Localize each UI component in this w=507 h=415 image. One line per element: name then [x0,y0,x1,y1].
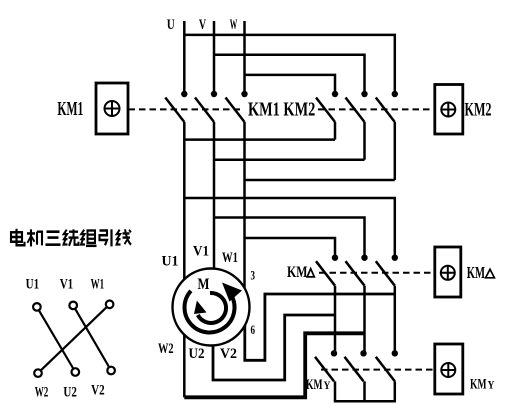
svg-text:U1: U1 [162,253,179,270]
svg-text:KM1 KM2: KM1 KM2 [248,98,315,120]
svg-text:KM: KM [470,376,487,393]
svg-text:W: W [230,15,238,33]
svg-text:V1: V1 [193,243,209,260]
svg-text:6: 6 [251,323,256,337]
svg-text:V2: V2 [220,346,237,363]
svg-text:KM: KM [287,263,307,280]
svg-text:Y: Y [488,379,495,392]
svg-text:W2: W2 [158,340,174,356]
svg-text:U1: U1 [26,275,39,292]
svg-text:Y: Y [324,379,331,392]
svg-text:U2: U2 [189,345,205,362]
svg-text:W2: W2 [35,383,48,400]
svg-text:KM: KM [467,265,485,283]
svg-text:U: U [167,15,175,32]
svg-text:V2: V2 [91,381,105,398]
svg-text:M: M [198,276,210,294]
svg-text:W1: W1 [91,275,104,292]
svg-text:KM: KM [306,376,323,393]
svg-text:3: 3 [251,269,256,283]
svg-text:U2: U2 [63,383,77,400]
svg-text:V1: V1 [60,275,73,292]
svg-text:W1: W1 [222,248,238,265]
svg-text:KM1: KM1 [57,99,83,120]
svg-text:KM2: KM2 [465,99,492,121]
svg-text:V: V [199,16,207,32]
